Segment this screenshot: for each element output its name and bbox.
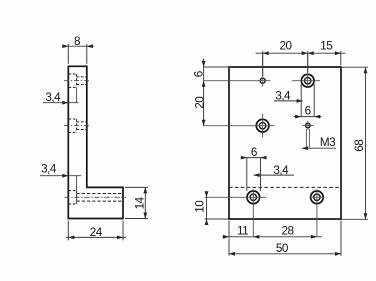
- svg-text:20: 20: [279, 39, 292, 52]
- svg-text:M3: M3: [320, 136, 335, 149]
- svg-text:68: 68: [353, 140, 366, 152]
- hole H6 centerlines: [310, 189, 325, 237]
- left dimension 10 line: [206, 191, 208, 224]
- left dimension 10 bottom extension: [205, 218, 230, 220]
- hole H5 counterbored: [247, 191, 260, 204]
- flange hole centerline: [65, 196, 127, 198]
- dimension 6 H5 counterbore extensions: [247, 158, 261, 191]
- dimension 8 line: [63, 45, 94, 47]
- leader 3,4 flange hole: [40, 175, 81, 177]
- dimension 8 extension lines: [68, 44, 87, 64]
- svg-text:20: 20: [193, 96, 206, 109]
- hole H5 centerlines: [205, 189, 267, 237]
- hole H4 M3 tapped: [306, 123, 311, 128]
- svg-text:6: 6: [193, 71, 206, 77]
- svg-text:10: 10: [194, 200, 207, 213]
- dimension 24 extension lines: [68, 221, 123, 241]
- svg-text:8: 8: [74, 35, 80, 48]
- hole H3 counterbored: [256, 119, 269, 132]
- front view plate outline: [229, 67, 341, 219]
- svg-text:3,4: 3,4: [45, 91, 61, 104]
- hole group 1 counterbore hidden outline: [69, 74, 77, 87]
- svg-text:3,4: 3,4: [41, 163, 57, 176]
- hole group 1 bore hidden lines: [77, 77, 87, 85]
- hole group 2 counterbore hidden outline: [69, 119, 77, 132]
- hole H3 centerlines: [204, 114, 275, 138]
- svg-text:50: 50: [276, 242, 289, 255]
- svg-text:15: 15: [320, 39, 333, 52]
- leader 3,4 hole group 1: [43, 102, 79, 104]
- hole group 1 extension down to 3,4 leader: [76, 88, 78, 103]
- right dimension 68 line: [365, 67, 367, 219]
- svg-text:24: 24: [90, 226, 103, 239]
- M3 leader line: [302, 147, 336, 149]
- leader 3,4 hole H5: [254, 174, 294, 176]
- svg-text:28: 28: [281, 225, 293, 238]
- top dimension extension lines: [263, 51, 341, 76]
- hole H2 centerlines: [292, 53, 320, 88]
- svg-text:3,4: 3,4: [275, 89, 291, 102]
- flange hole counterbore hidden outline: [69, 191, 77, 204]
- hole H6 counterbored: [311, 191, 324, 204]
- svg-text:3,4: 3,4: [273, 164, 289, 177]
- hole H2 counterbored: [301, 74, 314, 87]
- dimension 6 H5 line: [242, 157, 267, 159]
- left dimension 6 / 20 line: [203, 59, 205, 127]
- hole H1 centerlines: [204, 53, 271, 87]
- hole H1 plain: [260, 78, 265, 83]
- svg-text:6: 6: [305, 105, 311, 118]
- bottom dimension left extension: [228, 221, 230, 239]
- hole group 2 centerline: [64, 125, 91, 127]
- leader 3,4 hole H2: [274, 100, 303, 102]
- hole group 2 bore hidden lines: [77, 122, 87, 130]
- dimension 6 H2 line: [294, 116, 322, 118]
- dimension 24 line: [66, 236, 126, 238]
- hole group 1 centerline: [64, 80, 91, 82]
- top dimension 20 / 15 line: [256, 52, 346, 54]
- dimension 6 H2 counterbore extensions: [301, 84, 314, 117]
- dimension 14 line: [144, 187, 146, 218]
- flange hole extension up to 3,4 leader: [76, 176, 78, 204]
- bottom dimension 11 / 28 line: [222, 236, 322, 238]
- left dimension top extension: [204, 66, 230, 68]
- right dimension 68 extensions: [342, 67, 368, 219]
- hole H4 centerlines: [303, 121, 313, 130]
- svg-text:11: 11: [237, 225, 248, 238]
- svg-text:6: 6: [251, 146, 257, 159]
- side view L-profile outline: [68, 66, 123, 218]
- dimension 14 extension lines: [125, 187, 148, 218]
- hidden flange edge: [229, 186, 341, 188]
- M3 hole projection lines: [306, 129, 309, 148]
- flange hole bore hidden lines: [77, 194, 123, 202]
- bottom dimension 50 extensions: [229, 221, 341, 256]
- svg-text:14: 14: [133, 196, 146, 209]
- bottom dimension 50 line: [229, 253, 341, 255]
